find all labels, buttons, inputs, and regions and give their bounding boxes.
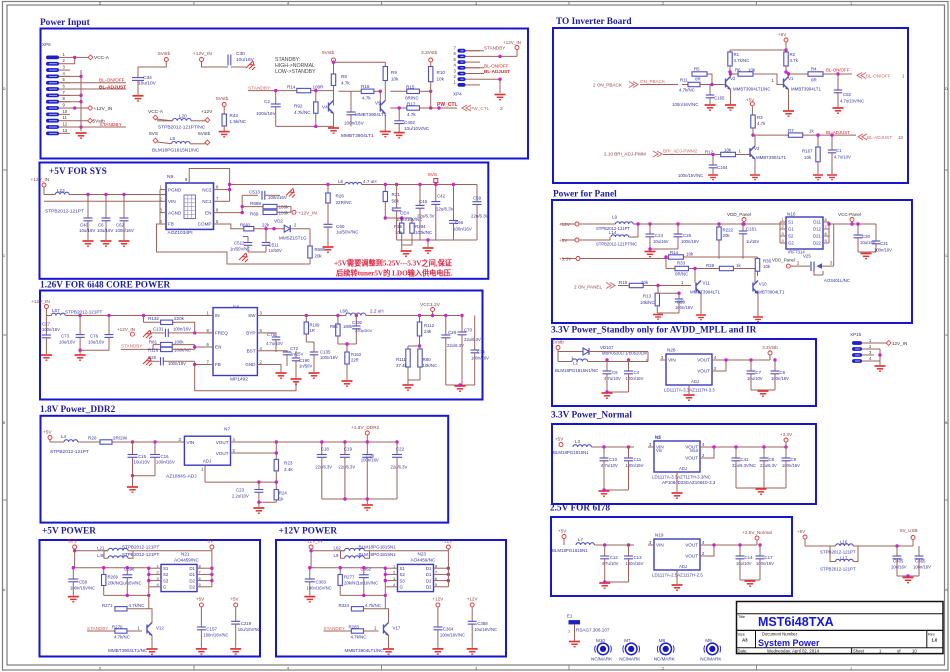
svg-text:20k/NC: 20k/NC bbox=[108, 581, 123, 586]
svg-text:V17: V17 bbox=[393, 626, 401, 631]
svg-text:100k/NC: 100k/NC bbox=[174, 348, 191, 353]
svg-text:10u/16V/NC: 10u/16V/NC bbox=[474, 627, 497, 632]
svg-text:VIN: VIN bbox=[668, 358, 676, 363]
svg-text:R80: R80 bbox=[423, 357, 432, 362]
svg-text:G: G bbox=[163, 585, 167, 590]
svg-text:AO3401L/NC: AO3401L/NC bbox=[824, 278, 850, 283]
svg-text:R167: R167 bbox=[802, 149, 813, 154]
svg-text:2.10 BRI_ADJ-PWM: 2.10 BRI_ADJ-PWM bbox=[604, 152, 646, 157]
svg-text:4.7k: 4.7k bbox=[341, 81, 350, 86]
svg-text:V10: V10 bbox=[759, 282, 767, 287]
svg-text:R16: R16 bbox=[361, 84, 370, 89]
svg-text:IN: IN bbox=[215, 313, 220, 318]
svg-text:R270: R270 bbox=[112, 625, 123, 630]
svg-text:R112: R112 bbox=[424, 323, 435, 328]
svg-text:MMBT3904LT1: MMBT3904LT1 bbox=[791, 87, 821, 92]
svg-text:VOUT: VOUT bbox=[216, 451, 229, 456]
svg-text:MMBT3904LT1: MMBT3904LT1 bbox=[355, 112, 387, 117]
svg-text:N9: N9 bbox=[167, 174, 173, 180]
svg-text:22u/6.3V: 22u/6.3V bbox=[760, 463, 777, 468]
svg-text:C30: C30 bbox=[862, 234, 871, 239]
svg-text:C8: C8 bbox=[769, 457, 775, 462]
svg-text:3: 3 bbox=[475, 667, 477, 671]
svg-text:D12: D12 bbox=[813, 227, 822, 232]
svg-text:D2: D2 bbox=[426, 585, 432, 590]
svg-text:D2: D2 bbox=[189, 578, 195, 583]
svg-text:C402: C402 bbox=[404, 120, 415, 125]
svg-text:M7: M7 bbox=[624, 638, 631, 643]
svg-text:C2: C2 bbox=[264, 99, 270, 104]
svg-text:100k: 100k bbox=[174, 340, 184, 345]
svg-text:R1: R1 bbox=[734, 52, 740, 57]
svg-text:1u/16V/NC: 1u/16V/NC bbox=[121, 581, 141, 586]
svg-text:10k/NC: 10k/NC bbox=[423, 363, 438, 368]
svg-text:R222: R222 bbox=[723, 228, 734, 233]
svg-text:C14: C14 bbox=[745, 555, 754, 560]
svg-text:Wednesday, April 02, 2014: Wednesday, April 02, 2014 bbox=[767, 649, 820, 654]
svg-text:VCC-A: VCC-A bbox=[148, 109, 164, 115]
svg-text:LD1117A-2.5AZ1117H-2.5: LD1117A-2.5AZ1117H-2.5 bbox=[652, 573, 703, 578]
svg-text:+12V_IN: +12V_IN bbox=[117, 327, 135, 332]
svg-text:R9: R9 bbox=[391, 70, 397, 75]
svg-text:TO Inverter Board: TO Inverter Board bbox=[556, 17, 632, 27]
svg-text:BRI_ADJ-PWM2: BRI_ADJ-PWM2 bbox=[663, 149, 698, 154]
svg-text:R24: R24 bbox=[279, 491, 288, 496]
svg-text:5VS: 5VS bbox=[68, 539, 77, 544]
svg-text:Vout: Vout bbox=[690, 448, 699, 453]
svg-text:1n/50V: 1n/50V bbox=[299, 364, 312, 369]
svg-text:C17: C17 bbox=[765, 555, 774, 560]
svg-text:24k: 24k bbox=[424, 329, 432, 334]
svg-text:L67: L67 bbox=[52, 308, 60, 313]
svg-text:Title: Title bbox=[738, 615, 745, 619]
svg-text:C25: C25 bbox=[148, 355, 157, 360]
svg-text:+12V_IN: +12V_IN bbox=[503, 40, 521, 45]
svg-text:STPB2012-121PT: STPB2012-121PT bbox=[122, 552, 159, 557]
svg-text:+5V: +5V bbox=[230, 597, 239, 602]
svg-text:STPB2012-121PT: STPB2012-121PT bbox=[122, 545, 159, 550]
svg-text:10u/10V/NC: 10u/10V/NC bbox=[404, 126, 430, 131]
svg-text:L5: L5 bbox=[170, 136, 176, 141]
svg-text:4.7k: 4.7k bbox=[362, 96, 371, 101]
svg-text:100n/16V: 100n/16V bbox=[675, 305, 693, 310]
svg-text:100n/16V: 100n/16V bbox=[42, 327, 60, 332]
svg-text:R7: R7 bbox=[788, 128, 794, 133]
svg-text:10u/10V: 10u/10V bbox=[736, 561, 752, 566]
svg-text:0R: 0R bbox=[811, 78, 817, 83]
svg-text:3.3Vstb: 3.3Vstb bbox=[762, 345, 778, 350]
svg-text:L4: L4 bbox=[61, 434, 67, 439]
svg-text:C58: C58 bbox=[79, 580, 88, 585]
svg-text:C512: C512 bbox=[234, 241, 245, 246]
svg-text:VOUT: VOUT bbox=[685, 456, 698, 461]
svg-text:BLM18PG1815N1: BLM18PG1815N1 bbox=[359, 552, 397, 557]
svg-text:FREQ: FREQ bbox=[215, 331, 228, 336]
svg-text:100n/16V: 100n/16V bbox=[782, 463, 800, 468]
svg-text:5: 5 bbox=[99, 667, 101, 671]
svg-text:C5: C5 bbox=[612, 370, 618, 375]
svg-text:C358: C358 bbox=[477, 621, 488, 626]
svg-text:10k: 10k bbox=[641, 280, 649, 285]
svg-text:C59: C59 bbox=[473, 196, 482, 201]
svg-text:C73: C73 bbox=[61, 334, 70, 339]
svg-text:D: D bbox=[945, 87, 948, 91]
svg-text:V12: V12 bbox=[156, 626, 164, 631]
svg-text:C192: C192 bbox=[352, 320, 363, 325]
svg-text:100n/16V: 100n/16V bbox=[156, 460, 175, 465]
svg-text:37.4k: 37.4k bbox=[396, 363, 408, 368]
svg-text:22u/6.3V: 22u/6.3V bbox=[436, 207, 454, 212]
svg-text:+5V: +5V bbox=[555, 437, 564, 442]
svg-text:MMBT3904LT1/NC: MMBT3904LT1/NC bbox=[345, 648, 385, 653]
svg-text:3.3V Power_Standby only for AV: 3.3V Power_Standby only for AVDD_MPLL an… bbox=[551, 326, 757, 336]
svg-text:AGND: AGND bbox=[168, 210, 182, 215]
svg-text:10u/16V: 10u/16V bbox=[88, 340, 104, 345]
svg-text:L62: L62 bbox=[334, 546, 342, 551]
svg-text:100R: 100R bbox=[313, 84, 325, 89]
svg-text:FB: FB bbox=[215, 362, 221, 367]
svg-text:+: + bbox=[391, 207, 394, 213]
svg-text:BL-ADJUST: BL-ADJUST bbox=[484, 69, 510, 74]
svg-text:4.7u/10V: 4.7u/10V bbox=[266, 341, 283, 346]
svg-text:C6: C6 bbox=[780, 370, 786, 375]
svg-text:G1: G1 bbox=[788, 227, 794, 232]
svg-text:VOUT: VOUT bbox=[697, 369, 710, 374]
svg-text:C10: C10 bbox=[609, 457, 618, 462]
svg-text:C131: C131 bbox=[153, 327, 164, 332]
svg-text:10k: 10k bbox=[686, 251, 694, 256]
svg-text:R109: R109 bbox=[310, 323, 321, 328]
svg-text:C19: C19 bbox=[344, 447, 353, 452]
svg-text:GND: GND bbox=[245, 362, 256, 367]
svg-text:EN: EN bbox=[205, 210, 211, 215]
svg-text:C41: C41 bbox=[741, 457, 750, 462]
svg-text:0R/NC: 0R/NC bbox=[405, 96, 419, 101]
svg-text:VCC-Panel: VCC-Panel bbox=[838, 212, 861, 217]
svg-text:100n/16V: 100n/16V bbox=[173, 327, 191, 332]
svg-text:100n/16V/NC: 100n/16V/NC bbox=[678, 173, 703, 178]
svg-text:S3: S3 bbox=[163, 578, 169, 583]
svg-text:Power for Panel: Power for Panel bbox=[553, 190, 617, 200]
svg-text:C22: C22 bbox=[396, 447, 405, 452]
svg-text:Vin: Vin bbox=[656, 448, 663, 453]
svg-text:D2: D2 bbox=[189, 585, 195, 590]
svg-text:+12V: +12V bbox=[201, 109, 213, 115]
svg-text:PW_CTL: PW_CTL bbox=[470, 106, 490, 112]
svg-text:10k: 10k bbox=[804, 155, 812, 160]
svg-text:4: 4 bbox=[287, 2, 289, 6]
svg-text:C31: C31 bbox=[880, 241, 889, 246]
svg-text:100n/16V: 100n/16V bbox=[471, 356, 489, 361]
svg-text:VDD_Panel: VDD_Panel bbox=[772, 258, 795, 263]
svg-text:22u/6.3V: 22u/6.3V bbox=[315, 465, 332, 470]
svg-text:2 ON_PBACK: 2 ON_PBACK bbox=[593, 83, 623, 88]
svg-text:C190: C190 bbox=[299, 358, 310, 363]
svg-text:10k: 10k bbox=[724, 148, 732, 153]
svg-text:MMBT3904LT1: MMBT3904LT1 bbox=[755, 290, 785, 295]
svg-text:10k: 10k bbox=[763, 264, 771, 269]
svg-text:STANDBY: STANDBY bbox=[324, 626, 345, 631]
svg-text:+1.8V_DDR2: +1.8V_DDR2 bbox=[351, 425, 380, 431]
svg-text:COMP: COMP bbox=[198, 222, 212, 227]
svg-text:L7: L7 bbox=[578, 537, 583, 542]
svg-text:+2.5V_Normal: +2.5V_Normal bbox=[742, 530, 772, 535]
svg-text:+12V_IN: +12V_IN bbox=[31, 177, 50, 183]
svg-text:C: C bbox=[3, 254, 6, 258]
svg-text:ADJ: ADJ bbox=[679, 466, 687, 471]
svg-text:10k: 10k bbox=[748, 68, 756, 73]
svg-text:R688: R688 bbox=[315, 247, 326, 252]
svg-text:22u/6.3V: 22u/6.3V bbox=[471, 214, 489, 219]
svg-text:C42: C42 bbox=[437, 194, 446, 199]
svg-text:L14: L14 bbox=[609, 230, 617, 235]
svg-text:C18: C18 bbox=[321, 447, 330, 452]
svg-text:5Vstb: 5Vstb bbox=[158, 51, 171, 57]
svg-text:AP1084D33GAZ1084D-3.3: AP1084D33GAZ1084D-3.3 bbox=[662, 480, 716, 485]
svg-text:2: 2 bbox=[662, 2, 664, 6]
svg-text:2: 2 bbox=[662, 667, 664, 671]
svg-text:C405: C405 bbox=[893, 559, 904, 564]
svg-text:4: 4 bbox=[287, 667, 289, 671]
svg-text:10u/16V: 10u/16V bbox=[891, 565, 907, 570]
svg-text:R33: R33 bbox=[677, 261, 686, 266]
svg-text:Document Number: Document Number bbox=[762, 632, 798, 637]
svg-text:10: 10 bbox=[898, 135, 903, 140]
svg-text:D1: D1 bbox=[189, 566, 195, 571]
svg-text:AO4459/NC: AO4459/NC bbox=[174, 558, 199, 563]
svg-text:BLM18PG1815N1: BLM18PG1815N1 bbox=[552, 548, 588, 553]
svg-text:1u/16V/NC: 1u/16V/NC bbox=[358, 581, 378, 586]
svg-text:22u/6.3V: 22u/6.3V bbox=[338, 465, 355, 470]
svg-text:R277: R277 bbox=[344, 575, 355, 580]
svg-text:AZ1084S-ADJ: AZ1084S-ADJ bbox=[166, 474, 197, 480]
svg-text:4.7k/NC: 4.7k/NC bbox=[294, 110, 311, 115]
svg-text:C29: C29 bbox=[677, 300, 686, 305]
svg-text:FB: FB bbox=[168, 222, 174, 227]
svg-text:C363: C363 bbox=[316, 580, 327, 585]
svg-text:STPB2012-121PT/NC: STPB2012-121PT/NC bbox=[158, 125, 206, 131]
svg-text:+5V: +5V bbox=[43, 430, 52, 436]
svg-text:A: A bbox=[3, 588, 6, 592]
svg-text:R36: R36 bbox=[763, 259, 772, 264]
svg-text:100n/16V: 100n/16V bbox=[256, 111, 277, 116]
svg-text:1.5k/NC: 1.5k/NC bbox=[230, 119, 247, 124]
svg-text:SW: SW bbox=[248, 313, 256, 318]
svg-text:10u/10V/NC: 10u/10V/NC bbox=[238, 627, 261, 632]
svg-text:S1: S1 bbox=[788, 220, 794, 225]
svg-text:2R/2W: 2R/2W bbox=[113, 436, 128, 441]
svg-text:R69: R69 bbox=[250, 212, 259, 217]
svg-text:1k: 1k bbox=[279, 497, 284, 502]
svg-text:LD1117A-3.3AZ1117H-3.3: LD1117A-3.3AZ1117H-3.3 bbox=[664, 388, 715, 393]
svg-text:S2: S2 bbox=[163, 572, 169, 577]
svg-text:100n/16V: 100n/16V bbox=[913, 565, 931, 570]
svg-text:100n/16V/NC: 100n/16V/NC bbox=[440, 633, 465, 638]
svg-text:R19: R19 bbox=[619, 280, 628, 285]
svg-text:C12: C12 bbox=[610, 555, 619, 560]
svg-text:MMBT3904LT1/NC: MMBT3904LT1/NC bbox=[733, 87, 771, 92]
svg-text:56k: 56k bbox=[392, 198, 400, 203]
svg-text:10k/NC: 10k/NC bbox=[640, 300, 655, 305]
svg-text:VCC-A: VCC-A bbox=[94, 55, 110, 61]
svg-text:D11: D11 bbox=[813, 220, 821, 225]
svg-text:ADJ: ADJ bbox=[679, 564, 687, 569]
svg-text:S3: S3 bbox=[400, 578, 406, 583]
svg-text:BYP: BYP bbox=[246, 331, 255, 336]
svg-text:C7: C7 bbox=[756, 370, 762, 375]
svg-text:D1: D1 bbox=[426, 572, 432, 577]
svg-text:NC/MARK: NC/MARK bbox=[619, 657, 641, 662]
svg-text:+3.3V: +3.3V bbox=[780, 432, 793, 437]
svg-text:4.7k: 4.7k bbox=[790, 58, 799, 63]
svg-text:STANDBY: STANDBY bbox=[121, 344, 142, 349]
svg-text:AOZ1034PI: AOZ1034PI bbox=[168, 230, 193, 236]
svg-text:C24: C24 bbox=[655, 233, 664, 238]
svg-text:R11: R11 bbox=[680, 78, 688, 83]
svg-text:BL-ON/OFF: BL-ON/OFF bbox=[99, 78, 125, 84]
svg-text:22u/6.3V: 22u/6.3V bbox=[464, 337, 481, 342]
svg-text:2.5V FOR 6I78: 2.5V FOR 6I78 bbox=[550, 504, 610, 514]
svg-text:C4: C4 bbox=[634, 370, 640, 375]
svg-text:+5V需要调整到5.25V---5.3V之间,保证: +5V需要调整到5.25V---5.3V之间,保证 bbox=[334, 259, 453, 268]
svg-text:N21: N21 bbox=[181, 552, 190, 557]
svg-text:3.3Vstb: 3.3Vstb bbox=[421, 50, 438, 56]
svg-text:3: 3 bbox=[475, 2, 477, 6]
svg-text:VIN: VIN bbox=[168, 199, 176, 204]
svg-text:100n/16V: 100n/16V bbox=[320, 355, 338, 360]
svg-text:100n/16V: 100n/16V bbox=[681, 239, 699, 244]
svg-text:2 ON_PANEL: 2 ON_PANEL bbox=[574, 285, 602, 290]
svg-text:MMBT3904LT1/NC: MMBT3904LT1/NC bbox=[108, 648, 148, 653]
svg-text:+5V: +5V bbox=[196, 597, 205, 602]
svg-text:C365: C365 bbox=[915, 559, 926, 564]
svg-text:C27: C27 bbox=[42, 322, 51, 327]
svg-text:R14: R14 bbox=[287, 84, 296, 89]
svg-text:BL-ADJUST: BL-ADJUST bbox=[867, 135, 892, 140]
svg-text:20k/NC: 20k/NC bbox=[344, 581, 359, 586]
svg-text:4.7k/NC: 4.7k/NC bbox=[114, 635, 130, 640]
svg-text:R92: R92 bbox=[294, 104, 303, 109]
svg-text:C74: C74 bbox=[477, 350, 485, 355]
svg-text:1k: 1k bbox=[736, 263, 741, 268]
svg-text:+5V: +5V bbox=[558, 529, 567, 534]
svg-text:L21: L21 bbox=[97, 546, 105, 551]
svg-text:B: B bbox=[3, 421, 6, 425]
svg-text:XP4: XP4 bbox=[453, 92, 462, 97]
svg-text:22R: 22R bbox=[351, 358, 359, 363]
svg-text:MMBT3904LT1: MMBT3904LT1 bbox=[756, 155, 786, 160]
svg-text:R10: R10 bbox=[437, 70, 446, 75]
svg-text:V1: V1 bbox=[788, 76, 794, 81]
svg-text:VOUT: VOUT bbox=[216, 440, 229, 445]
svg-text:+5V POWER: +5V POWER bbox=[42, 527, 96, 537]
svg-text:D: D bbox=[3, 87, 6, 91]
svg-text:BL-ON/OFF: BL-ON/OFF bbox=[866, 74, 891, 79]
svg-text:BL-ADJUST: BL-ADJUST bbox=[826, 130, 850, 135]
svg-text:G: G bbox=[400, 585, 404, 590]
svg-text:Rev: Rev bbox=[928, 633, 935, 637]
svg-text:1u/50V/NC: 1u/50V/NC bbox=[336, 230, 359, 235]
svg-text:100n/16V: 100n/16V bbox=[344, 121, 365, 126]
svg-text:V25: V25 bbox=[803, 254, 811, 259]
svg-text:STPB2012-121PT: STPB2012-121PT bbox=[50, 449, 89, 455]
svg-text:N16: N16 bbox=[787, 212, 796, 217]
svg-text:4.7 uH: 4.7 uH bbox=[363, 179, 377, 184]
svg-text:R13: R13 bbox=[643, 294, 652, 299]
svg-text:L9: L9 bbox=[334, 553, 339, 558]
svg-text:VIN: VIN bbox=[187, 440, 195, 445]
svg-text:L20: L20 bbox=[179, 114, 187, 119]
svg-text:C9: C9 bbox=[791, 457, 797, 462]
svg-text:VOUT: VOUT bbox=[685, 543, 698, 548]
svg-text:L6: L6 bbox=[338, 179, 344, 184]
svg-text:L9: L9 bbox=[612, 215, 617, 220]
svg-text:1.8V Power_DDR2: 1.8V Power_DDR2 bbox=[40, 405, 116, 415]
svg-text:R294: R294 bbox=[415, 224, 426, 229]
svg-text:VOUT: VOUT bbox=[697, 358, 710, 363]
svg-text:S2: S2 bbox=[400, 572, 406, 577]
svg-text:4.7k/NC: 4.7k/NC bbox=[129, 603, 145, 608]
svg-text:S1: S1 bbox=[163, 566, 169, 571]
svg-text:PW_CTL: PW_CTL bbox=[437, 102, 458, 108]
svg-text:13: 13 bbox=[63, 128, 68, 133]
svg-text:VIN: VIN bbox=[656, 543, 664, 548]
svg-text:S2: S2 bbox=[788, 234, 794, 239]
svg-text:D1: D1 bbox=[426, 566, 432, 571]
svg-text:+12V_IN: +12V_IN bbox=[298, 210, 317, 216]
svg-text:C28: C28 bbox=[448, 330, 457, 335]
svg-text:NC1: NC1 bbox=[202, 199, 212, 204]
svg-text:D21: D21 bbox=[813, 234, 822, 239]
svg-text:10: 10 bbox=[63, 109, 68, 114]
svg-text:C15: C15 bbox=[138, 454, 147, 459]
svg-text:10u/16V: 10u/16V bbox=[79, 228, 95, 233]
svg-text:VD107: VD107 bbox=[600, 345, 614, 350]
svg-text:5VS: 5VS bbox=[149, 131, 158, 137]
svg-text:100n/16V: 100n/16V bbox=[874, 248, 892, 253]
svg-text:0R/NC: 0R/NC bbox=[675, 272, 688, 277]
svg-text:10u/16V: 10u/16V bbox=[97, 228, 113, 233]
svg-text:R28: R28 bbox=[706, 263, 715, 268]
svg-text:1.26V FOR 6i48 CORE POWER: 1.26V FOR 6i48 CORE POWER bbox=[40, 281, 171, 291]
svg-text:2.2 uH: 2.2 uH bbox=[370, 309, 384, 314]
svg-text:R692: R692 bbox=[240, 223, 251, 228]
svg-text:MP1492: MP1492 bbox=[230, 377, 248, 383]
svg-text:100n/16V: 100n/16V bbox=[771, 376, 789, 381]
svg-text:1n/50V/NC: 1n/50V/NC bbox=[230, 247, 250, 252]
svg-text:+5V: +5V bbox=[205, 539, 214, 544]
svg-text:XP15: XP15 bbox=[850, 332, 862, 337]
svg-text:4.7u/10V: 4.7u/10V bbox=[834, 155, 851, 160]
svg-text:R6: R6 bbox=[735, 68, 741, 73]
svg-text:10: 10 bbox=[912, 649, 917, 654]
svg-text:20k: 20k bbox=[315, 254, 323, 259]
svg-text:STPB2012-121PT: STPB2012-121PT bbox=[65, 310, 102, 315]
svg-text:+12V: +12V bbox=[442, 539, 454, 544]
svg-text:22k: 22k bbox=[262, 223, 270, 228]
svg-text:2.4k: 2.4k bbox=[284, 467, 293, 472]
svg-text:C: C bbox=[945, 254, 948, 258]
svg-text:STANDBY: STANDBY bbox=[100, 122, 123, 128]
svg-text:100n/16V: 100n/16V bbox=[361, 458, 379, 463]
svg-text:BLM18PG1815N1/NC: BLM18PG1815N1/NC bbox=[152, 148, 200, 154]
svg-text:R8: R8 bbox=[341, 74, 347, 79]
svg-text:12V_IN: 12V_IN bbox=[892, 341, 907, 346]
svg-text:C396: C396 bbox=[124, 567, 135, 572]
svg-text:R283: R283 bbox=[349, 625, 360, 630]
svg-text:4.7k/NC: 4.7k/NC bbox=[679, 88, 695, 93]
svg-text:+12V_IN: +12V_IN bbox=[193, 51, 212, 57]
